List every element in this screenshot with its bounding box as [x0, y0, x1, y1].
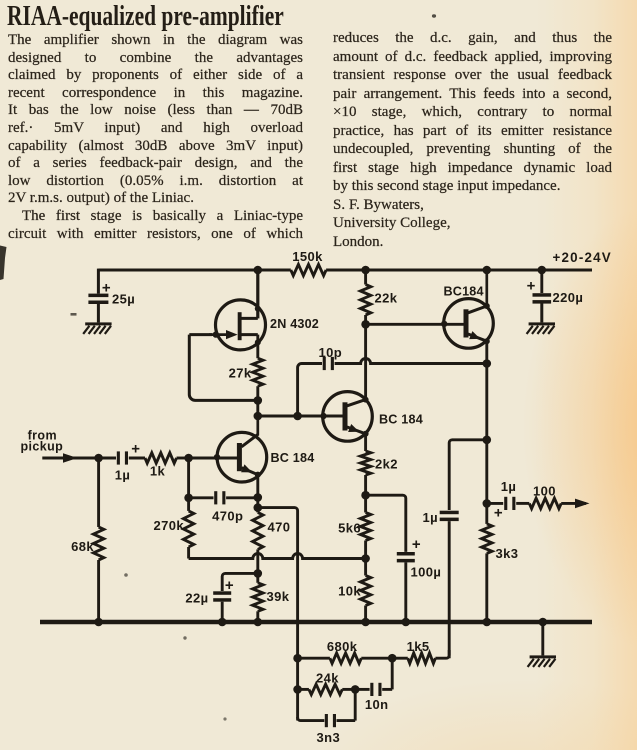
resistor 1k5 with leads [392, 657, 408, 660]
wire: Q1 base down to 470p node [187, 458, 190, 498]
scan edge mark (left margin) [0, 246, 7, 281]
wire: Q3 emitter chain [485, 341, 488, 503]
speck (left margin) [71, 313, 77, 316]
svg-text:BC184: BC184 [444, 285, 484, 299]
speck (bottom area) [223, 717, 226, 720]
transistor Tr3 BC184 [444, 299, 494, 349]
svg-text:1k5: 1k5 [407, 639, 430, 654]
wire: +20-24V supply rail (right segment) [326, 269, 592, 272]
svg-text:BC 184: BC 184 [271, 451, 315, 465]
svg-text:+: + [412, 536, 421, 553]
svg-text:2N 4302: 2N 4302 [270, 317, 319, 331]
svg-text:220µ: 220µ [553, 290, 584, 305]
svg-text:270k: 270k [153, 518, 184, 533]
wire: 10p to Q3 emitter (hops over Q2 collector line) [335, 359, 487, 364]
svg-text:39k: 39k [267, 589, 290, 604]
svg-text:3n3: 3n3 [316, 730, 340, 745]
wire: 1u down to 1k5 (crosses 0V rail) [448, 521, 451, 658]
svg-text:100µ: 100µ [411, 565, 442, 580]
wire: 680k/1k5 junction down to 10n [391, 658, 394, 689]
svg-text:+20-24V: +20-24V [553, 250, 612, 265]
wire: JFET source to 27k [256, 335, 259, 359]
wire: +20-24V supply rail (left segment) [98, 269, 290, 272]
ground (220u) [529, 322, 555, 325]
wire: feedback take-off to RIAA network [258, 508, 298, 721]
svg-text:100: 100 [533, 484, 556, 499]
wire: 25u to ground [97, 304, 100, 322]
resistor 100 [529, 498, 561, 508]
wire: 0V rail [40, 620, 592, 625]
svg-text:470p: 470p [212, 509, 243, 524]
transistor Tr1 BC184 (input) [217, 432, 267, 482]
wire: 22k node down to Q2 collector [364, 324, 367, 399]
svg-text:1µ: 1µ [115, 468, 131, 483]
resistor 470 [253, 512, 263, 549]
svg-text:+: + [102, 280, 111, 297]
wire: 1u to 100 [516, 502, 529, 505]
resistor 24k with leads [293, 685, 302, 694]
ground (25u) [85, 322, 111, 325]
wire: 270k bottom to 5k6/10k junction (hops over two verticals) [189, 554, 366, 559]
wire: 39k to 0V rail [256, 611, 259, 622]
resistor 22k with leads [361, 266, 370, 275]
svg-text:68k: 68k [71, 539, 94, 554]
resistor 270k with leads [187, 498, 190, 511]
wire: Q3 emitter to 1u feedback cap [449, 440, 487, 510]
transistor Tr4 2N4302 (JFET) [216, 300, 266, 350]
wire: input to 1u [99, 457, 116, 460]
capacitor C 3n3 [298, 717, 325, 721]
svg-text:1µ: 1µ [501, 479, 517, 494]
capacitor C 470p [189, 496, 214, 499]
svg-text:+: + [527, 278, 536, 295]
resistor 5k6 with leads [364, 495, 367, 512]
svg-text:10n: 10n [365, 697, 389, 712]
output arrow [575, 499, 590, 509]
wire: 27k to node A [256, 386, 259, 400]
svg-text:2k2: 2k2 [375, 457, 398, 472]
resistor 150k (supply decoupling) [291, 264, 326, 275]
svg-text:1k: 1k [150, 464, 166, 479]
capacitor C 10n [382, 688, 392, 691]
wire: rail to JFET drain [256, 270, 259, 318]
svg-text:680k: 680k [327, 639, 358, 654]
wire: input lead [42, 457, 98, 460]
wire: 1u to 1k [129, 457, 145, 460]
svg-text:+: + [494, 505, 503, 522]
svg-text:22k: 22k [375, 291, 398, 306]
svg-text:+: + [225, 577, 234, 594]
transistor Tr2 BC184 [323, 392, 373, 442]
wire: 220u to ground [540, 304, 543, 323]
capacitor C 22u with leads [222, 573, 258, 591]
wire: Q2 base wire from node A [258, 415, 344, 418]
svg-text:25µ: 25µ [112, 292, 135, 307]
wire: output lead [561, 502, 586, 505]
node: input / 68k junction [94, 454, 103, 463]
resistor 27k [253, 358, 263, 386]
svg-text:1µ: 1µ [422, 510, 438, 525]
wire: rail to 220u [540, 270, 543, 293]
svg-text:10p: 10p [318, 345, 342, 360]
resistor 680k with leads [298, 657, 330, 660]
wire: rail left end down to 25u [97, 269, 100, 294]
resistor 2k2 with leads [364, 434, 367, 451]
input arrow [63, 453, 78, 463]
svg-text:22µ: 22µ [185, 591, 208, 606]
node: Q1 emitter / 470p [256, 475, 259, 513]
svg-text:+: + [131, 441, 140, 458]
capacitor C 10p [323, 357, 326, 370]
node: feedback vertical / 680k [293, 654, 302, 663]
speck (mid page) [124, 573, 128, 577]
svg-text:150k: 150k [292, 249, 323, 264]
node A: Q1 collector / 27k / gate junction [256, 400, 259, 416]
wire: 1k to Q1 base [177, 457, 189, 460]
capacitor C 100u with leads [366, 495, 406, 552]
speck (page mark) [432, 14, 436, 17]
speck (below rail) [183, 636, 186, 639]
wire: Q2 base node up to 10p [298, 364, 322, 417]
resistor 1k [145, 453, 177, 463]
ground (0V rail) [539, 618, 548, 627]
wire: JFET gate loop [189, 335, 258, 401]
svg-text:pickup: pickup [20, 440, 63, 454]
wire: 470 to 39k [256, 549, 259, 582]
capacitor C 220u [533, 293, 552, 297]
capacitor C 1u (feedback) [440, 511, 459, 515]
resistor 68k with leads [97, 458, 100, 527]
svg-text:5k6: 5k6 [338, 521, 361, 536]
resistor 39k [253, 583, 263, 612]
svg-text:3k3: 3k3 [496, 546, 519, 561]
capacitor C 1u (input) [117, 451, 120, 464]
svg-text:27k: 27k [229, 366, 252, 381]
resistor 10k with leads [364, 559, 367, 576]
wire: Q3 base wire [366, 323, 464, 326]
wire: output node to 1u [487, 502, 503, 505]
capacitor C 25u [88, 294, 108, 298]
svg-text:24k: 24k [316, 670, 339, 685]
svg-text:BC 184: BC 184 [379, 413, 423, 427]
svg-text:10k: 10k [338, 584, 361, 599]
wire: 24k/10n node down [354, 689, 357, 720]
svg-text:470: 470 [268, 520, 291, 535]
resistor 3k3 with leads [482, 524, 492, 554]
capacitor C 1u (output) [504, 497, 507, 510]
